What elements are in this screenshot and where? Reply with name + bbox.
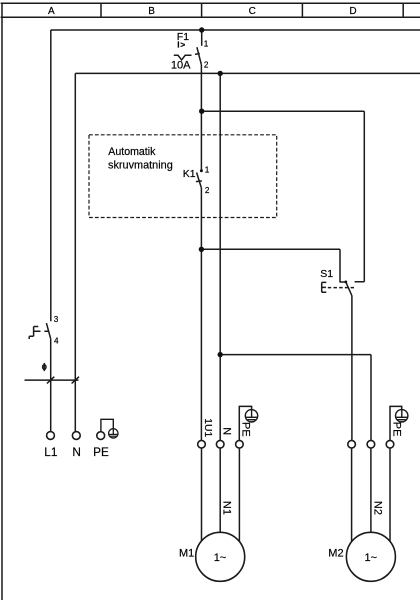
svg-text:1U1: 1U1	[202, 418, 213, 437]
terminal PE	[97, 432, 105, 440]
node L1-F1 junction	[199, 27, 204, 32]
breaker F1 blade	[197, 47, 202, 65]
svg-text:PE: PE	[93, 445, 109, 459]
terminal M1 N	[216, 440, 224, 448]
PE earth symbol M1	[245, 410, 257, 422]
svg-text:Automatik: Automatik	[108, 146, 156, 158]
switch S1 contact dot	[344, 281, 347, 284]
wire L1 drop	[50, 30, 52, 321]
svg-text:S1: S1	[320, 268, 333, 280]
contactor K1 tick	[196, 180, 202, 183]
wire N middle drop	[219, 73, 221, 440]
cable marker line	[25, 379, 79, 381]
terminal M2 U	[348, 440, 356, 448]
terminal M1 U	[198, 440, 206, 448]
motor M1	[196, 532, 245, 581]
wire M1 PE loop	[239, 406, 251, 440]
terminal M1 PE	[236, 440, 244, 448]
wire L1 bus top	[51, 29, 420, 31]
svg-text:I: I	[177, 39, 179, 49]
breaker F1 tick	[195, 53, 200, 56]
wire K1 lower	[200, 188, 202, 441]
svg-text:A: A	[48, 6, 55, 17]
svg-text:N: N	[72, 445, 81, 459]
motor M2	[346, 532, 395, 581]
switch Q1 actuator	[29, 327, 49, 340]
node S1 feed junction	[199, 109, 204, 114]
wire K1 to S1 link	[201, 249, 345, 282]
svg-text:4: 4	[54, 336, 59, 345]
PE earth symbol M2	[396, 410, 408, 422]
cable slash N	[72, 377, 79, 384]
svg-text:B: B	[148, 6, 155, 17]
wire S1 feed	[202, 111, 365, 282]
switch Q1 blade	[46, 323, 50, 339]
svg-text:M1: M1	[179, 547, 194, 559]
switch S1 actuator dashes	[328, 287, 356, 289]
svg-text:K1: K1	[183, 168, 196, 180]
dashed enclosure Automatik	[89, 135, 277, 218]
wire S1 to M2	[351, 296, 353, 440]
contactor K1 contact dot	[200, 169, 203, 172]
wire M2 PE loop	[390, 406, 402, 440]
svg-text:N2: N2	[371, 501, 383, 515]
svg-text:2: 2	[205, 186, 210, 195]
svg-text:N: N	[221, 427, 233, 435]
switch S1 blade	[346, 282, 352, 296]
cable slash L1	[47, 377, 54, 384]
wire L1 lower	[50, 339, 52, 432]
svg-text:C: C	[249, 6, 256, 17]
svg-text:D: D	[349, 6, 356, 17]
wire N bus top	[75, 72, 420, 74]
wire N drop left	[74, 73, 76, 431]
node N tap junction	[218, 71, 223, 76]
svg-text:3: 3	[54, 315, 59, 324]
svg-text:1~: 1~	[214, 552, 227, 564]
svg-text:1: 1	[204, 39, 209, 48]
svg-text:2: 2	[204, 60, 209, 69]
svg-text:1~: 1~	[365, 552, 378, 564]
svg-text:PE: PE	[240, 422, 252, 437]
phi symbol	[43, 363, 46, 371]
svg-text:1: 1	[205, 165, 210, 174]
switch S1 actuator E	[322, 282, 327, 292]
svg-text:>: >	[180, 39, 185, 49]
column ruler band	[1, 3, 420, 17]
terminal N	[72, 432, 80, 440]
wire N branch to M2	[220, 355, 371, 441]
node N branch junction	[218, 352, 223, 357]
svg-text:L1: L1	[44, 445, 57, 459]
wire F1 top	[201, 30, 203, 46]
node K1 out junction	[199, 247, 204, 252]
PE earth symbol small	[109, 429, 118, 438]
terminal M2 PE	[386, 440, 394, 448]
terminal M2 N	[367, 440, 375, 448]
svg-text:M2: M2	[328, 547, 343, 559]
svg-text:PE: PE	[390, 422, 402, 437]
frame left border	[1, 3, 3, 600]
svg-text:10A: 10A	[171, 60, 191, 72]
contactor K1 blade	[197, 173, 202, 188]
breaker F1 thermal squiggle	[174, 55, 192, 60]
wire F1 to K1	[200, 65, 202, 171]
wire M1 leads	[202, 448, 240, 542]
svg-text:skruvmatning: skruvmatning	[108, 159, 173, 171]
svg-text:N1: N1	[221, 501, 233, 515]
wire PE bracket	[101, 419, 113, 431]
wire M2 leads	[352, 448, 390, 542]
terminal L1	[47, 432, 55, 440]
